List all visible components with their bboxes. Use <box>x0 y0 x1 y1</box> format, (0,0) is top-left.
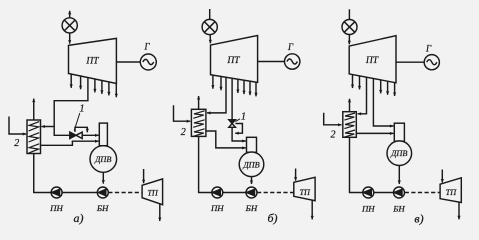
svg-text:ТП: ТП <box>147 188 159 197</box>
svg-text:ПН: ПН <box>210 203 224 213</box>
svg-text:2: 2 <box>14 138 19 149</box>
boiler (crossed circle, panel b) <box>202 19 217 34</box>
turbine PT (panel a) <box>69 38 117 83</box>
wire: heater drain to column (panel b) <box>206 131 246 148</box>
pump PN (panel v) <box>363 187 374 198</box>
wire: pipe between pumps (panel a) <box>62 192 97 194</box>
svg-text:ДПВ: ДПВ <box>390 149 407 158</box>
wire: steam inlet to TP (panel b) <box>295 169 297 181</box>
svg-text:ПН: ПН <box>361 204 375 214</box>
deaerator DPV (panel a) <box>90 146 117 173</box>
wire: heater outlet up to boiler (panel v) <box>349 99 351 112</box>
turbine PT (panel b) <box>211 36 258 83</box>
wire: steam branch into heater 2 (panel a) <box>42 126 55 128</box>
svg-text:Г: Г <box>425 44 432 54</box>
boiler (crossed circle, panel v) <box>342 20 357 35</box>
turbine PT (panel v) <box>349 36 396 83</box>
label 1 with leader (panel b) <box>235 112 246 123</box>
wire: deaerator outlet to pump BN (panel v) <box>398 166 400 185</box>
wire: dashed pipe to TP (panel v) <box>405 192 440 194</box>
wire: live steam to turbine (panel a) <box>69 33 71 44</box>
extraction arrows under turbine (panel b) <box>213 75 256 96</box>
svg-text:1: 1 <box>241 112 246 123</box>
pump BN (panel b) <box>246 187 257 198</box>
wire: feedwater inlet 2 (panel v) <box>324 113 342 125</box>
wire: bypass over valve (panel a) <box>75 127 87 132</box>
wire: boiler vent stub (panel a) <box>69 11 71 18</box>
wire: TP exhaust (panel b) <box>311 200 313 220</box>
wire: turbine shaft to generator (panel b) <box>258 61 285 63</box>
pump BN (panel v) <box>394 187 405 198</box>
generator G (panel v) <box>424 55 439 70</box>
wire: valve outlet to deaerator column (panel b) <box>232 127 246 141</box>
svg-text:ПТ: ПТ <box>85 57 99 67</box>
wire: live steam to turbine (panel b) <box>209 35 211 44</box>
heater 2 coils (panel b) <box>193 111 204 137</box>
deaerator column (panel b) <box>247 137 257 152</box>
wire: heater drain down and feed pipe (panel a) <box>34 154 51 193</box>
svg-text:б): б) <box>267 211 277 225</box>
generator G (panel a) <box>140 54 156 70</box>
svg-text:БН: БН <box>245 203 258 213</box>
wire: deaerator outlet to pump BN (panel b) <box>251 177 253 184</box>
label 1 with leader (panel a) <box>74 104 84 131</box>
wire: heater outlet down and feed pipe (panel v) <box>350 137 363 192</box>
wire: extraction steam to deaerator column (panel v) <box>373 79 393 127</box>
wire: feedwater inlet 2 (panel a) <box>9 117 26 135</box>
wire: extraction steam into heater 2 (panel b) <box>207 77 226 113</box>
wire: valve outlet to deaerator column (panel a) <box>82 134 98 136</box>
wire: pipe between pumps (panel v) <box>374 192 394 194</box>
valve 1 (panel b) <box>229 120 236 128</box>
wire: turbine shaft to generator (panel a) <box>116 61 140 63</box>
wire: steam inlet to TP (panel a) <box>143 169 145 183</box>
svg-text:БН: БН <box>96 203 109 213</box>
deaerator DPV (panel b) <box>239 152 264 177</box>
deaerator DPV (panel v) <box>387 141 412 166</box>
wire: steam inlet to TP (panel v) <box>441 170 443 183</box>
heater 2 coils (panel a) <box>29 122 40 154</box>
wire: live steam to turbine (panel v) <box>348 35 350 45</box>
extraction arrows under turbine (panel v) <box>353 75 395 97</box>
wire: extraction steam down to valve (panel b) <box>231 78 233 119</box>
wire: heater drain down and feed pipe (panel b) <box>199 136 212 192</box>
wire: heater outlet up to boiler (panel a) <box>33 99 35 120</box>
pump BN (panel a) <box>97 187 108 198</box>
svg-text:Г: Г <box>143 42 150 52</box>
pump PN (panel b) <box>212 187 223 198</box>
wire: deaerator outlet to pump BN (panel a) <box>102 172 104 183</box>
svg-text:в): в) <box>414 212 423 226</box>
deaerator column (panel a) <box>99 123 107 146</box>
svg-text:а): а) <box>74 211 84 225</box>
wire: TP exhaust (panel v) <box>458 202 460 219</box>
svg-text:ТП: ТП <box>299 188 311 197</box>
boiler (crossed circle, panel a) <box>62 18 77 33</box>
wire: bypass around valve (panel b) <box>235 124 242 134</box>
wire: boiler vent stub (panel v) <box>348 9 350 19</box>
wire: heater drain to column (panel v) <box>356 132 393 134</box>
svg-text:БН: БН <box>392 204 405 214</box>
valve 1 (panel a) <box>70 132 82 138</box>
wire: extraction steam into heater 2 (panel v) <box>358 77 367 114</box>
wire: TP exhaust (panel a) <box>159 204 161 221</box>
generator G (panel b) <box>285 54 300 69</box>
pump PN (panel a) <box>51 187 62 198</box>
wire: boiler vent stub (panel b) <box>209 9 211 20</box>
svg-text:ПН: ПН <box>49 203 63 213</box>
wire: turbine shaft to generator (panel v) <box>396 61 424 63</box>
svg-text:2: 2 <box>331 130 336 141</box>
wire: heater outlet up to boiler (panel b) <box>198 96 200 109</box>
svg-text:1: 1 <box>80 104 85 115</box>
wire: pipe between pumps (panel b) <box>223 192 246 194</box>
heater 2 body (panel v) <box>343 112 357 138</box>
wire: feedwater inlet 2 (panel b) <box>174 105 191 121</box>
heat consumer TP (panel b) <box>294 177 315 200</box>
heater 2 body (panel a) <box>27 120 41 154</box>
svg-text:2: 2 <box>181 127 186 138</box>
heat consumer TP (panel a) <box>142 179 163 205</box>
wire: dashed pipe to TP (panel a) <box>108 192 142 194</box>
svg-text:ДПВ: ДПВ <box>94 155 111 164</box>
heat consumer TP (panel v) <box>440 178 461 203</box>
wire: extraction steam down-left to valve line (panel a) <box>54 77 88 135</box>
deaerator column (panel v) <box>394 123 404 141</box>
svg-text:ПТ: ПТ <box>226 56 240 66</box>
heater 2 coils (panel v) <box>344 113 355 137</box>
svg-text:ТП: ТП <box>446 188 458 197</box>
svg-text:ПТ: ПТ <box>365 56 379 66</box>
heater 2 body (panel b) <box>191 109 206 136</box>
extraction arrows under turbine (panel a) <box>71 74 116 97</box>
svg-text:Г: Г <box>287 42 294 52</box>
wire: heater drain to column (panel a) <box>41 141 99 145</box>
svg-text:ДПВ: ДПВ <box>242 160 259 169</box>
wire: dashed pipe to TP (panel b) <box>257 192 294 194</box>
